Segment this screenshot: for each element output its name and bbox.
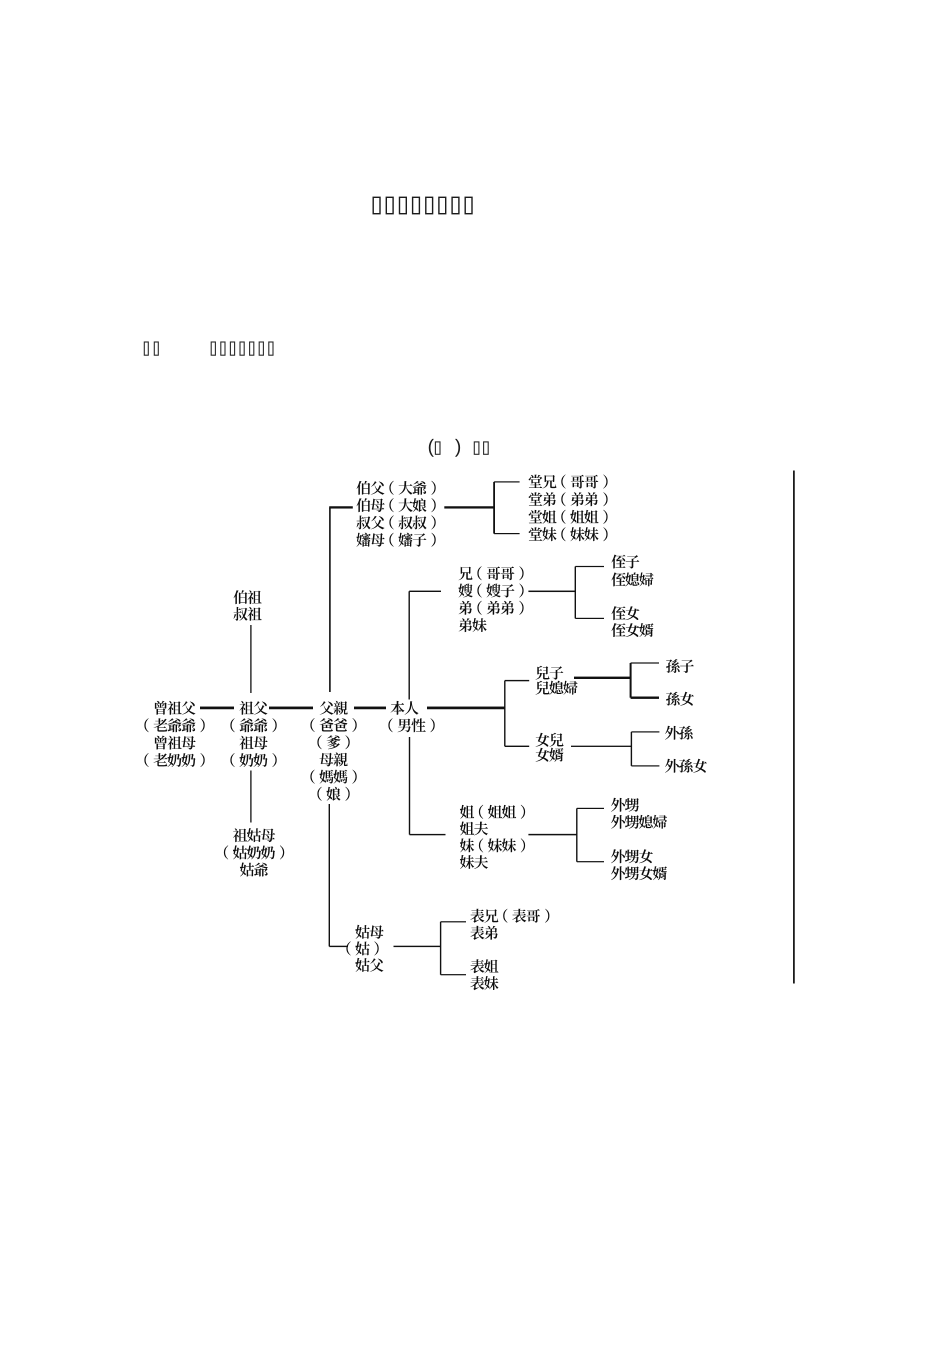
node （媽媽） <box>310 770 356 784</box>
node （爹） <box>317 735 349 749</box>
node （老爺爺） <box>144 718 204 732</box>
wire 孫 bracket vertical <box>630 663 632 698</box>
wire sisters group to 外甥 bracket <box>528 834 576 836</box>
wire 姑母 group to 表 bracket <box>394 946 441 947</box>
node 姑爺 <box>240 863 268 877</box>
node 曾祖父 <box>155 701 196 715</box>
wire 表 bracket bottom stub <box>441 974 466 975</box>
wire main chain segment 本人-children bracket <box>427 707 505 710</box>
node 女婿 <box>536 748 564 762</box>
node （爸爸） <box>310 718 356 732</box>
node 堂妹（妹妹） <box>529 527 608 541</box>
wire main chain segment 父親-本人 <box>354 707 386 710</box>
node 姐（姐姐） <box>460 805 525 819</box>
node 姐夫 <box>460 822 488 836</box>
wire 侄 bracket top stub <box>575 566 604 567</box>
node （娘） <box>317 787 349 801</box>
wire trunk 父親 down to 姑母 group <box>329 804 330 946</box>
node 堂姐（姐姐） <box>529 510 608 524</box>
node 堂弟（弟弟） <box>529 492 608 506</box>
wire 堂 bracket top stub <box>494 481 519 482</box>
node （男性） <box>388 718 434 732</box>
node 表姐 <box>470 959 498 973</box>
wire 伯祖 group down to 祖父 <box>250 625 251 693</box>
wire 侄 bracket bottom stub <box>575 618 604 619</box>
heading "( box ) box box" <box>429 439 488 457</box>
wire main chain segment 曾祖父-祖父 <box>200 707 234 710</box>
node 妹（妹妹） <box>460 838 525 852</box>
wire trunk 本人 down to sisters group <box>409 737 410 835</box>
node 伯祖 <box>234 590 262 604</box>
node 表兄（表哥） <box>470 909 549 923</box>
node 表妹 <box>470 976 498 990</box>
node 嬸母（嬸子） <box>356 533 435 547</box>
node 叔父（叔叔） <box>357 515 436 529</box>
node 兒媳婦 <box>536 681 578 695</box>
wire trunk 本人 up to siblings group <box>409 591 410 699</box>
wire 伯父 group to 堂 bracket <box>444 506 494 508</box>
node 姑母 <box>355 925 383 939</box>
node （姑奶奶） <box>224 845 284 859</box>
node （姑） <box>346 941 378 955</box>
wire 堂 bracket bottom stub <box>494 533 519 534</box>
wire 表 bracket vertical <box>440 922 441 975</box>
wire 外甥 bracket vertical <box>576 808 577 861</box>
node （老奶奶） <box>144 753 204 767</box>
subtitle: two boxes + seven missing-glyph boxes <box>144 342 273 355</box>
wire 外甥 bracket bottom stub <box>577 861 604 862</box>
node 姑父 <box>355 958 383 972</box>
node 侄女婿 <box>611 623 653 637</box>
wire right border line <box>793 471 795 984</box>
wire trunk 父親 up to 伯父 group <box>329 508 331 693</box>
wire 外孫 bracket vertical <box>631 732 632 766</box>
wire 祖父 down to 祖姑母 group <box>250 771 251 823</box>
node 兄（哥哥） <box>459 566 524 580</box>
node 孫女 <box>666 692 694 706</box>
node 祖母 <box>240 736 268 750</box>
node 嫂（嫂子） <box>458 584 523 598</box>
node 祖父 <box>240 701 268 715</box>
node 孫子 <box>666 659 694 673</box>
node 弟（弟弟） <box>459 601 524 615</box>
node 堂兄（哥哥） <box>529 475 608 489</box>
node 外甥 <box>611 798 639 812</box>
node 女兒 <box>536 733 564 747</box>
node 伯母（大娘） <box>357 498 436 512</box>
wire main chain segment 祖父-父親 <box>269 707 313 710</box>
node （爺爺） <box>230 718 276 732</box>
node 弟妹 <box>459 618 487 632</box>
title: row of 8 missing-glyph boxes <box>373 197 472 213</box>
node 侄子 <box>611 555 639 569</box>
node 祖姑母 <box>233 828 275 842</box>
wire 外孫 bracket bottom stub <box>631 765 659 766</box>
node 母親 <box>320 752 348 766</box>
wire 外甥 bracket top stub <box>577 808 604 809</box>
node 外甥女婿 <box>611 866 667 880</box>
node 兒子 <box>536 666 564 680</box>
wire 外孫 bracket top stub <box>631 731 659 732</box>
node 外甥媳婦 <box>611 815 667 829</box>
wire elbow into siblings group <box>409 591 441 592</box>
wire elbow into 伯父 group <box>329 506 353 508</box>
wire 兒子 row to 孫 bracket <box>574 677 631 679</box>
wire elbow into sisters group <box>410 834 446 835</box>
wire 侄 bracket vertical <box>575 567 576 619</box>
node 外孫女 <box>665 759 707 773</box>
wire children bracket top stub <box>505 680 529 681</box>
wire 堂 bracket vertical <box>493 482 495 534</box>
node 叔祖 <box>234 607 262 621</box>
wire siblings group to 侄 bracket <box>528 591 575 593</box>
node 表弟 <box>470 926 498 940</box>
wire elbow into 姑母 group <box>329 946 348 947</box>
wire 女兒 row to 外孫 bracket <box>571 746 631 747</box>
node 伯父（大爺） <box>357 481 436 495</box>
node 父親 <box>320 701 348 715</box>
node 妹夫 <box>460 855 488 869</box>
node （奶奶） <box>230 753 276 767</box>
node 本人 <box>391 701 419 715</box>
wire 孫 bracket top stub <box>631 662 659 663</box>
wire children bracket vertical <box>504 681 505 747</box>
node 外孫 <box>665 726 693 740</box>
node 外甥女 <box>611 849 653 863</box>
node 侄媳婦 <box>611 573 653 587</box>
node 侄女 <box>611 606 639 620</box>
wire 表 bracket top stub <box>441 921 466 922</box>
wire 孫 bracket bottom stub <box>631 697 659 699</box>
node 曾祖母 <box>155 736 196 750</box>
wire children bracket bottom stub <box>505 746 529 747</box>
